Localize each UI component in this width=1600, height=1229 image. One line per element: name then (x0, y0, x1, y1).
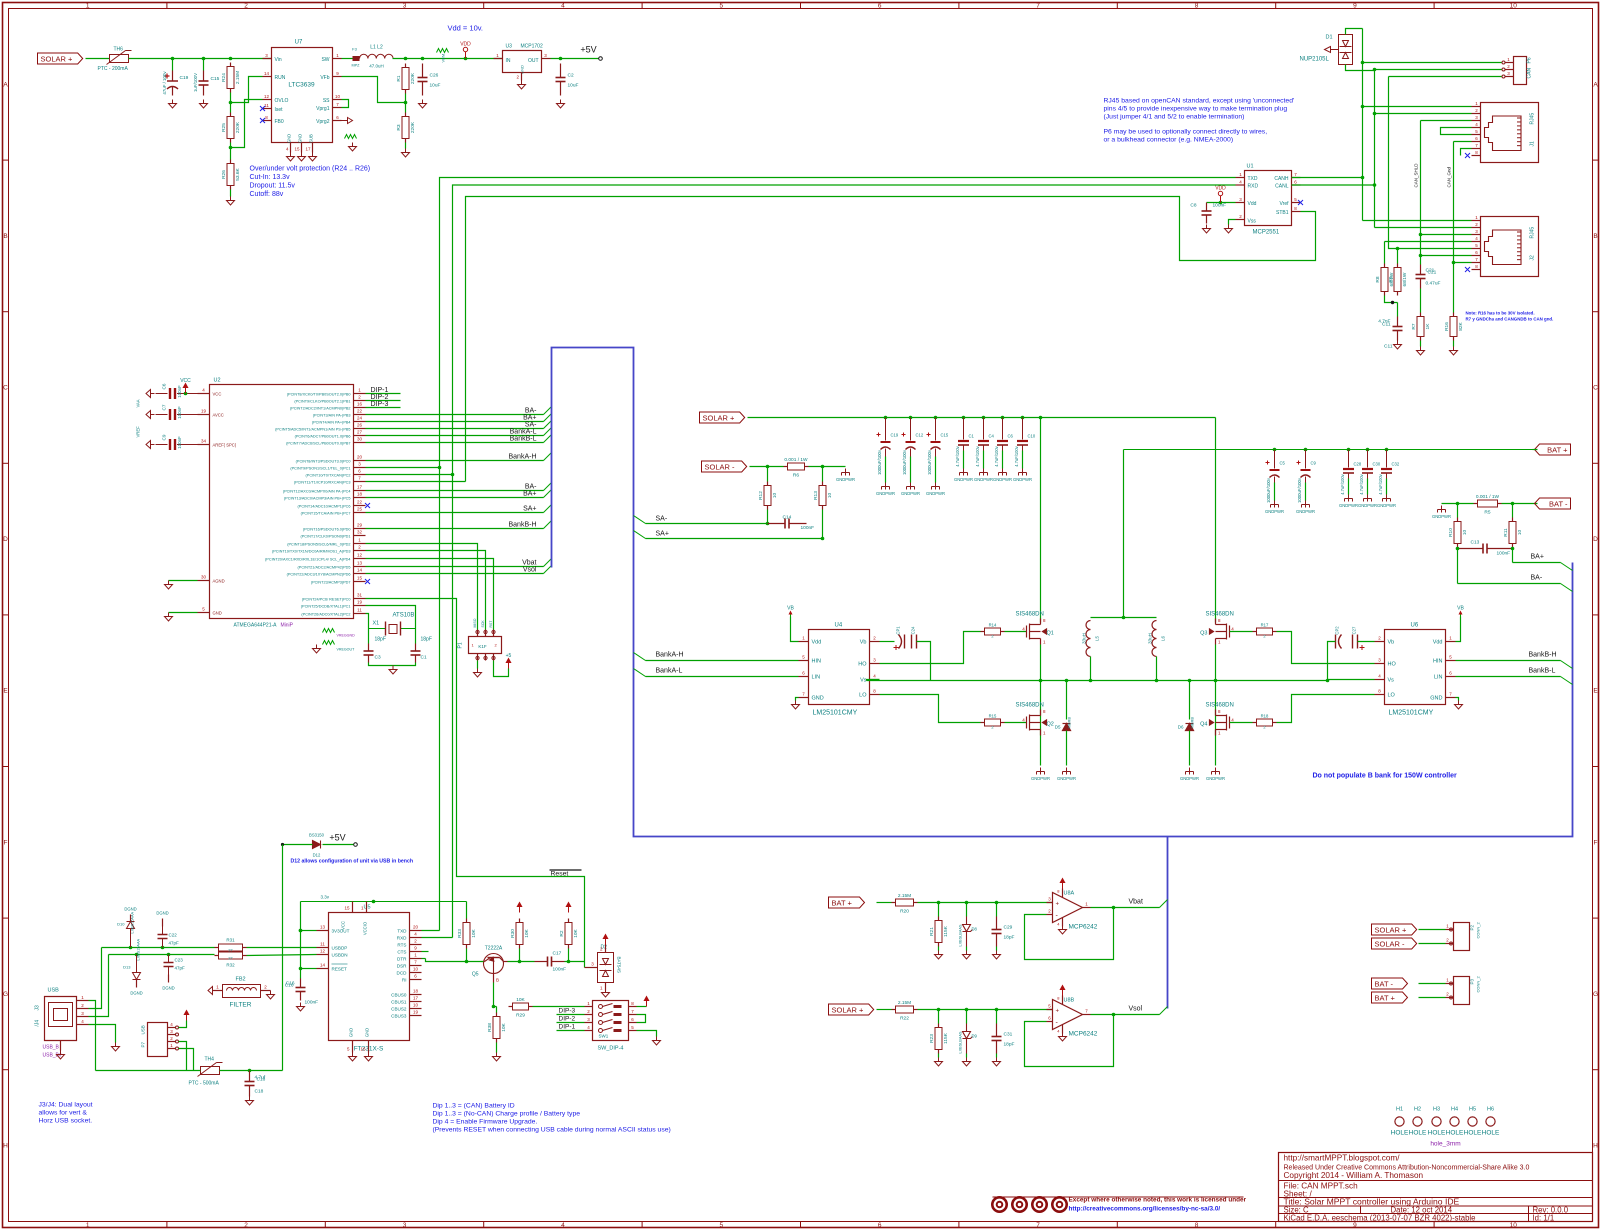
wire (966, 1054, 968, 1058)
wire (366, 528, 544, 530)
FB2 pin 2 (261, 990, 271, 992)
ground (389, 666, 397, 675)
wire (366, 414, 544, 416)
U7 pin 1 (333, 58, 342, 60)
cc icon 1 (992, 1197, 1006, 1211)
svg-text:H6: H6 (1487, 1107, 1494, 1113)
wire (366, 599, 585, 962)
svg-text:11: 11 (320, 942, 325, 947)
junction (229, 101, 233, 105)
svg-text:C9: C9 (1311, 461, 1317, 466)
svg-text:Vdd: Vdd (1433, 640, 1443, 646)
ground (267, 991, 275, 1000)
svg-text:GND: GND (213, 611, 222, 616)
svg-text:47pF: 47pF (175, 966, 186, 971)
wire (966, 947, 968, 951)
junction (299, 929, 303, 933)
wire (1040, 645, 1042, 766)
resistor R29 (509, 997, 533, 1019)
global label SOLAR + (829, 1004, 874, 1015)
wire (86, 58, 110, 60)
svg-text:J3/J4: Dual layout: J3/J4: Dual layout (39, 1102, 93, 1109)
svg-text:C12: C12 (916, 433, 924, 438)
svg-text:115K: 115K (943, 925, 949, 937)
svg-text:SW: SW (321, 57, 329, 63)
wire (466, 949, 468, 962)
wire (366, 435, 544, 437)
svg-text:CAN_SHLD: CAN_SHLD (1414, 163, 1419, 188)
junction (1021, 416, 1025, 420)
svg-text:Vdd: Vdd (812, 640, 822, 646)
ground (419, 100, 427, 109)
svg-text:12: 12 (320, 949, 326, 954)
svg-text:C7: C7 (162, 404, 167, 410)
SW1 pin 7 (629, 1014, 637, 1016)
wire (179, 1042, 187, 1071)
wire (1375, 69, 1502, 71)
capacitor C7 (156, 414, 168, 416)
U6 pin 4 Vs (1375, 679, 1385, 681)
svg-text:18pF: 18pF (1004, 935, 1015, 941)
svg-text:CAN: CAN (1527, 68, 1533, 79)
U2 pin 32 (354, 535, 366, 537)
svg-text:Copyright 2014 - William A. T: Copyright 2014 - William A. Thomason (1284, 1171, 1424, 1180)
wire (1442, 503, 1474, 505)
mounting hole H4 (1450, 1117, 1459, 1126)
svg-text:2: 2 (244, 3, 248, 10)
svg-text:22: 22 (357, 409, 363, 414)
resistor R8 (1375, 264, 1395, 296)
wire (996, 903, 998, 917)
usb bridge U5 FT231X-S (329, 905, 410, 1053)
svg-text:Except where otherwise noted,: Except where otherwise noted, this work … (1069, 1197, 1247, 1204)
U8A pin 2 (1047, 914, 1053, 916)
capacitor C18 (245, 1071, 266, 1097)
svg-text:R16: R16 (1444, 322, 1450, 331)
P1 pin 5 (485, 654, 487, 661)
svg-text:16: 16 (360, 1047, 366, 1052)
svg-text:R18: R18 (1261, 714, 1269, 719)
wire (1090, 657, 1092, 681)
ground (200, 100, 208, 109)
wire (282, 845, 284, 1071)
wire (1022, 451, 1024, 469)
wire (1230, 722, 1253, 724)
svg-text:10: 10 (413, 967, 419, 972)
wire (910, 457, 912, 483)
svg-text:RTS: RTS (397, 943, 406, 948)
svg-text:LXBSLBAAS: LXBSLBAAS (959, 1031, 963, 1053)
capacitor C11 (1382, 317, 1402, 341)
junction (965, 901, 969, 905)
svg-text:(PCINT13/ADC0/ACMP3/AIN PB+)PC: (PCINT13/ADC0/ACMP3/AIN PB+)PC5 (284, 497, 351, 501)
wire (300, 902, 302, 979)
svg-text:D13: D13 (123, 965, 131, 970)
svg-text:19: 19 (413, 1010, 419, 1015)
svg-text:CBUS1: CBUS1 (391, 1000, 407, 1005)
junction (934, 416, 938, 420)
wire (102, 947, 215, 949)
regulator U7 LTC3639 (272, 40, 333, 144)
frame tick (3, 311, 9, 313)
wire (917, 642, 931, 681)
svg-text:Dropout: 11.5v: Dropout: 11.5v (250, 183, 296, 190)
svg-text:CONN_2: CONN_2 (1476, 975, 1481, 992)
U4 pin 4 Vs (870, 679, 880, 681)
ground (57, 1051, 65, 1060)
svg-text:CANL: CANL (1275, 184, 1289, 190)
svg-text:6: 6 (878, 1222, 882, 1229)
svg-text:J1: J1 (1530, 141, 1536, 147)
svg-text:10: 10 (1462, 530, 1468, 536)
USB pin 1 (77, 1000, 89, 1002)
wire (646, 538, 823, 540)
svg-text:U2: U2 (214, 378, 221, 384)
svg-text:L5: L5 (1095, 636, 1100, 642)
svg-text:(PCINT22/ADC3/1XY8/ACMPN2)PD6: (PCINT22/ADC3/1XY8/ACMPN2)PD6 (287, 573, 351, 577)
wire (938, 947, 940, 951)
junction (1456, 502, 1460, 506)
svg-text:D1: D1 (1326, 35, 1333, 41)
svg-text:4.7nF: 4.7nF (1378, 319, 1390, 325)
svg-text:Iset: Iset (275, 107, 284, 113)
svg-text:100nF: 100nF (553, 967, 567, 973)
svg-text:H3: H3 (1433, 1107, 1440, 1113)
wire (1456, 676, 1561, 678)
svg-text:U7: U7 (295, 40, 303, 46)
wire (323, 844, 354, 846)
capacitor C27 (1352, 635, 1354, 649)
svg-text:C2: C2 (568, 73, 574, 79)
junction (1361, 176, 1365, 180)
capacitor C6 (1002, 418, 1004, 440)
wire (366, 614, 369, 644)
ground (474, 669, 482, 678)
U7 pin 10 (333, 99, 342, 101)
svg-text:SIS468DN: SIS468DN (1016, 703, 1044, 709)
capacitor C19 (162, 71, 189, 96)
svg-text:HO: HO (858, 662, 867, 668)
U2 pin 4 VCC (198, 393, 210, 395)
svg-text:LM25101CMY: LM25101CMY (1389, 710, 1434, 717)
svg-text:U8B: U8B (1064, 998, 1075, 1004)
svg-text:MCP2551: MCP2551 (1253, 230, 1280, 236)
wire (1207, 202, 1236, 204)
bus entry (544, 566, 552, 574)
capacitor C9 (1305, 450, 1307, 469)
USB pin 3 (77, 1016, 89, 1018)
wire (366, 559, 494, 630)
svg-text:BankB-L: BankB-L (510, 436, 537, 443)
no-connect (260, 106, 265, 111)
svg-text:CBUS3: CBUS3 (391, 1014, 407, 1019)
regulator U3 MCP1702 (503, 44, 543, 74)
resistor R3 (396, 113, 416, 143)
U8B power (1062, 996, 1064, 1005)
U5 pin 1 DTR (410, 958, 422, 960)
junction (421, 57, 425, 61)
svg-text:C13: C13 (1471, 540, 1480, 546)
svg-text:R17: R17 (1261, 623, 1269, 628)
U7 pin 12 (263, 99, 272, 101)
label overline (550, 869, 582, 871)
wire (1346, 65, 1375, 71)
resistor R24 (221, 63, 241, 93)
svg-text:20: 20 (357, 455, 363, 460)
junction (559, 57, 563, 61)
svg-text:220K: 220K (235, 121, 241, 133)
wire (750, 466, 784, 468)
U2 pin 16 (354, 407, 366, 409)
svg-text:4.7uF/100v: 4.7uF/100v (1359, 473, 1364, 494)
svg-text:IN: IN (506, 58, 511, 64)
U2 pin 18 (354, 497, 366, 499)
wire (422, 937, 453, 939)
wire (1389, 76, 1502, 78)
wire (1420, 289, 1422, 313)
title block divider (1279, 1213, 1593, 1215)
svg-text:(PCINT19/TX0/TX1N/DC0A/RR/MOS1: (PCINT19/TX0/TX1N/DC0A/RR/MOS1_A)PD3 (272, 550, 351, 554)
wire (89, 955, 109, 1017)
J2 pin 6 (1472, 255, 1481, 257)
junction (1385, 448, 1389, 452)
svg-text:BAT54S: BAT54S (617, 957, 622, 973)
svg-text:R20: R20 (900, 909, 909, 915)
svg-text:RJ45 based on openCAN standard: RJ45 based on openCAN standard, except u… (1104, 98, 1295, 105)
resistor R9 (1388, 264, 1408, 296)
svg-text:GNDPWR: GNDPWR (1377, 503, 1396, 508)
svg-text:OUT: OUT (528, 58, 539, 64)
svg-text:34: 34 (201, 439, 207, 444)
svg-text:VREF: VREF (136, 426, 141, 438)
svg-text:68/1W: 68/1W (1402, 272, 1408, 286)
svg-text:LIN: LIN (1434, 675, 1443, 681)
U5 pin 15 (352, 902, 354, 913)
wire (1456, 698, 1459, 701)
ground (1394, 341, 1402, 350)
U5 pin 13 3V3OUT (317, 930, 329, 932)
U5 pin 7 DSR (410, 965, 422, 967)
frame tick (166, 3, 168, 9)
junction (1347, 448, 1351, 452)
GNDPWR (1063, 768, 1071, 775)
svg-text:LIN: LIN (812, 675, 821, 681)
U2 pin 12 (354, 558, 366, 560)
svg-text:HIN: HIN (1433, 659, 1443, 665)
wire (983, 451, 985, 469)
svg-text:GND: GND (349, 1028, 354, 1037)
svg-text:Vprg2: Vprg2 (316, 119, 330, 125)
U5 pin 16 (368, 1041, 370, 1053)
svg-text:USB_B: USB_B (43, 1045, 60, 1051)
wire (637, 1031, 657, 1037)
svg-text:Vsol: Vsol (523, 567, 537, 574)
svg-text:1000uF/100v: 1000uF/100v (902, 449, 907, 475)
svg-text:HO: HO (1388, 662, 1397, 668)
svg-text:DSR: DSR (397, 964, 407, 969)
connector J1 RJ45 (1481, 103, 1539, 163)
svg-text:SA+: SA+ (523, 506, 536, 513)
svg-text:100nF: 100nF (177, 385, 182, 398)
svg-text:R29: R29 (516, 1013, 525, 1019)
U2 pin 30 (354, 442, 366, 444)
svg-text:(PCINT16/PSDOUT6.0)PD0: (PCINT16/PSDOUT6.0)PD0 (303, 528, 351, 532)
junction (1304, 448, 1308, 452)
svg-text:(PCINT5/ADC5/INT1/ACMPN1/AIN P: (PCINT5/ADC5/INT1/ACMPN1/AIN PS-)PB5 (275, 428, 350, 432)
connector P3 (1454, 975, 1481, 1004)
svg-text:Cutoff: 88v: Cutoff: 88v (250, 191, 284, 198)
ground (963, 1058, 971, 1067)
wire (1456, 660, 1561, 662)
U4 pin 3 HO (870, 663, 880, 665)
resistor R11 (1503, 518, 1523, 548)
svg-text:2.15M: 2.15M (898, 1000, 911, 1006)
U2 pin 5 GND (198, 612, 210, 614)
junction (248, 1069, 252, 1073)
J1 pin 6 (1472, 141, 1481, 143)
svg-text:(PCINT8/XCK0/T0/PB0SOUT2.0)PB0: (PCINT8/XCK0/T0/PB0SOUT2.0)PB0 (287, 393, 351, 397)
U4 pin 6 LIN (799, 676, 809, 678)
ground (1450, 347, 1458, 356)
ground (602, 989, 610, 998)
junction (451, 473, 455, 477)
U4 pin 5 HIN (799, 660, 809, 662)
wire (1419, 983, 1446, 985)
svg-text:Vbat: Vbat (1129, 899, 1143, 906)
wire (966, 1010, 968, 1024)
wire (496, 1007, 498, 1013)
svg-text:14: 14 (320, 963, 326, 968)
U2 pin 6 (354, 474, 366, 476)
GNDPWR (1302, 501, 1310, 508)
svg-text:HOLE: HOLE (1446, 1130, 1464, 1137)
svg-text:TXD: TXD (397, 929, 407, 934)
capacitor (1202, 203, 1212, 224)
resistor R14 (981, 628, 1005, 635)
svg-text:MCP6242: MCP6242 (1069, 924, 1098, 931)
svg-text:BAT +: BAT + (832, 898, 853, 907)
svg-text:GNDPWR: GNDPWR (876, 491, 895, 496)
capacitor C14 (768, 519, 807, 529)
BAT+ rail (1124, 449, 1533, 451)
global label BAT - (1535, 498, 1571, 509)
GNDPWR (1186, 768, 1194, 775)
svg-text:Note: R16 has to be 30V isolat: Note: R16 has to be 30V isolated. (1466, 311, 1535, 316)
svg-text:31: 31 (357, 593, 363, 598)
GNDPWR (1345, 495, 1353, 502)
svg-text:R22: R22 (900, 1016, 909, 1022)
J2 pin 5 (1472, 248, 1481, 250)
J2 pin 4 (1472, 241, 1481, 243)
wire (1386, 479, 1388, 495)
wire (231, 77, 263, 103)
U6 pin 5 HIN (1446, 660, 1456, 662)
svg-text:Dip 4 = Enable Firmware Upgrad: Dip 4 = Enable Firmware Upgrade. (433, 1119, 538, 1126)
wire (508, 961, 535, 963)
wire (301, 968, 317, 970)
resistor R12 (758, 482, 778, 510)
wire (1419, 929, 1446, 931)
capacitor C15 (199, 71, 220, 96)
FB2 pin 1 (213, 990, 223, 992)
junction (1326, 679, 1330, 683)
global label SOLAR + (1372, 924, 1417, 935)
capacitor C28 (1348, 450, 1350, 468)
svg-text:27: 27 (357, 430, 363, 435)
svg-text:F: F (4, 839, 8, 846)
svg-text:4: 4 (561, 3, 565, 10)
wire (1005, 722, 1027, 724)
svg-text:Horz USB socket.: Horz USB socket. (39, 1118, 93, 1125)
wire (405, 143, 407, 149)
no-connect (1298, 200, 1303, 205)
wire (1189, 731, 1191, 766)
svg-text:12: 12 (357, 553, 363, 558)
svg-text:hole_3mm: hole_3mm (1430, 1141, 1460, 1148)
resistor R23 (929, 1024, 949, 1054)
svg-text:0.001 / 1W: 0.001 / 1W (1476, 494, 1500, 500)
U2 pin 3 (354, 467, 366, 469)
J1 pin 3 (1472, 120, 1481, 122)
svg-text:http://creativecommons.org/lic: http://creativecommons.org/licenses/by-n… (1069, 1206, 1221, 1213)
svg-text:C3: C3 (375, 655, 381, 661)
wire (1419, 997, 1446, 999)
svg-text:18pF: 18pF (1004, 1042, 1015, 1048)
U7 pin 3 (263, 58, 272, 60)
svg-text:47.0uH: 47.0uH (369, 64, 384, 69)
svg-text:LO: LO (859, 693, 867, 699)
capacitor C5 (1274, 450, 1276, 469)
wire (1457, 504, 1459, 518)
svg-text:18pF: 18pF (375, 637, 386, 643)
global label BAT + (1535, 444, 1571, 455)
svg-text:1000uF/100v: 1000uF/100v (877, 449, 882, 475)
wire (966, 903, 968, 917)
svg-text:DGND: DGND (130, 991, 142, 996)
svg-text:F: F (1594, 839, 1598, 846)
power VDD (463, 47, 467, 58)
gate driver U4 LM25101CMY (809, 623, 870, 717)
svg-text:C21: C21 (1426, 268, 1435, 274)
junction (1155, 679, 1159, 683)
svg-text:220K: 220K (410, 72, 416, 84)
svg-text:C6: C6 (162, 383, 167, 389)
ground (165, 613, 173, 622)
svg-text:GNDPWR: GNDPWR (901, 491, 920, 496)
capacitor C22 (162, 939, 164, 948)
svg-text:/J4: /J4 (35, 1020, 41, 1027)
svg-text:Vdd = 10v.: Vdd = 10v. (448, 24, 484, 33)
GNDPWR (1364, 495, 1372, 502)
wire (301, 930, 317, 932)
ground (935, 951, 943, 960)
wire (342, 77, 406, 103)
U8B gnd (1062, 1025, 1064, 1034)
svg-text:U1: U1 (1247, 164, 1254, 170)
svg-text:RST: RST (489, 620, 493, 628)
crystal X1 (369, 613, 416, 636)
svg-text:R1: R1 (396, 75, 402, 81)
wire (369, 663, 416, 666)
svg-text:10uF: 10uF (568, 83, 579, 89)
svg-text:AVCC: AVCC (213, 413, 224, 418)
svg-text:USB: USB (48, 988, 60, 994)
svg-text:GNDPWR: GNDPWR (1180, 776, 1199, 781)
svg-text:D8: D8 (972, 927, 978, 932)
wire (1274, 483, 1276, 501)
U5 pin 11 USBDP (317, 947, 329, 949)
svg-text:R30: R30 (510, 929, 516, 938)
